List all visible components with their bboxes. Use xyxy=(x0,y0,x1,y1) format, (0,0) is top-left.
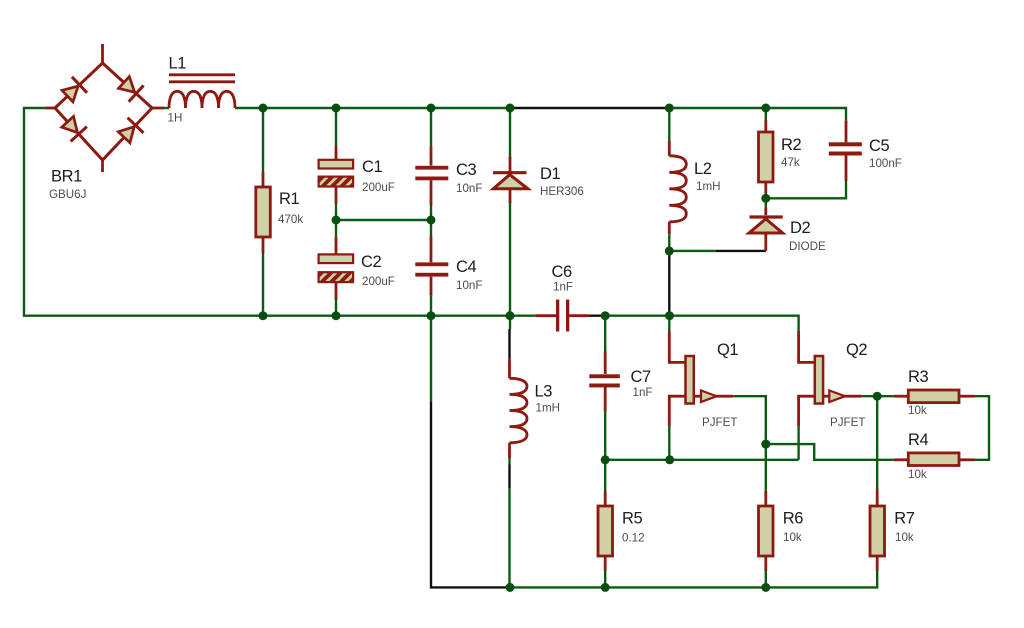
svg-text:1mH: 1mH xyxy=(536,402,560,415)
svg-text:10k: 10k xyxy=(783,531,802,544)
svg-text:200uF: 200uF xyxy=(362,275,395,288)
svg-text:10k: 10k xyxy=(908,404,927,417)
svg-text:1H: 1H xyxy=(168,112,183,125)
svg-text:1nF: 1nF xyxy=(553,281,573,294)
svg-text:10k: 10k xyxy=(908,468,927,481)
svg-text:BR1: BR1 xyxy=(51,168,82,186)
svg-text:PJFET: PJFET xyxy=(702,416,737,429)
svg-text:D2: D2 xyxy=(790,219,811,237)
svg-text:R5: R5 xyxy=(622,509,643,527)
svg-text:1nF: 1nF xyxy=(633,386,653,399)
svg-text:10nF: 10nF xyxy=(456,182,482,195)
svg-text:R4: R4 xyxy=(908,431,929,449)
svg-text:HER306: HER306 xyxy=(540,185,584,198)
svg-text:Q1: Q1 xyxy=(717,341,738,359)
svg-text:C4: C4 xyxy=(456,258,477,276)
svg-text:C7: C7 xyxy=(631,368,652,386)
svg-text:R7: R7 xyxy=(894,509,915,527)
svg-text:R3: R3 xyxy=(908,368,929,386)
svg-text:1mH: 1mH xyxy=(696,180,720,193)
svg-text:L3: L3 xyxy=(535,383,553,401)
svg-text:200uF: 200uF xyxy=(362,181,395,194)
svg-text:C1: C1 xyxy=(362,158,383,176)
svg-text:C6: C6 xyxy=(552,263,573,281)
svg-text:GBU6J: GBU6J xyxy=(49,188,86,201)
svg-text:R6: R6 xyxy=(783,509,804,527)
svg-text:10k: 10k xyxy=(895,531,914,544)
svg-text:10nF: 10nF xyxy=(456,279,482,292)
svg-text:Q2: Q2 xyxy=(846,341,867,359)
svg-text:PJFET: PJFET xyxy=(830,416,865,429)
svg-text:470k: 470k xyxy=(278,213,303,226)
svg-text:R1: R1 xyxy=(279,190,300,208)
svg-text:D1: D1 xyxy=(540,165,561,183)
svg-text:R2: R2 xyxy=(781,136,802,154)
svg-text:L1: L1 xyxy=(169,55,187,73)
svg-text:C5: C5 xyxy=(869,137,890,155)
svg-text:47k: 47k xyxy=(781,156,800,169)
svg-text:0.12: 0.12 xyxy=(622,532,645,545)
svg-text:100nF: 100nF xyxy=(869,157,902,170)
svg-text:C3: C3 xyxy=(456,161,477,179)
svg-text:L2: L2 xyxy=(694,160,712,178)
svg-text:C2: C2 xyxy=(361,253,382,271)
svg-text:DIODE: DIODE xyxy=(789,240,826,253)
